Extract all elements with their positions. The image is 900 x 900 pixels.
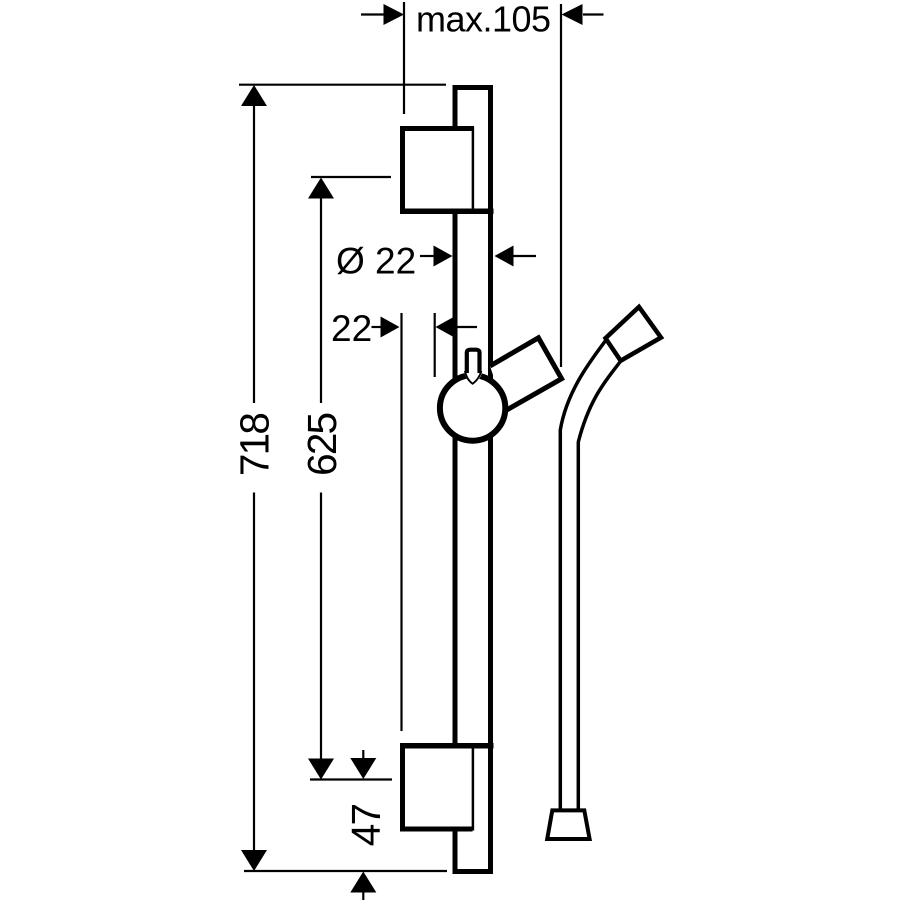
- svg-text:718: 718: [232, 414, 278, 476]
- svg-text:max.105: max.105: [416, 0, 551, 40]
- svg-text:47: 47: [343, 805, 389, 847]
- svg-text:625: 625: [299, 413, 345, 475]
- svg-text:Ø 22: Ø 22: [336, 241, 416, 282]
- svg-text:22: 22: [331, 308, 372, 349]
